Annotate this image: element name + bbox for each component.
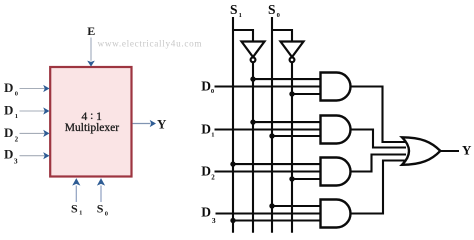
- junction dots: [230, 76, 294, 223]
- wire S1' vertical: [252, 62, 254, 233]
- svg-text:D: D: [201, 205, 211, 220]
- junction S1'/AND1: [250, 76, 255, 81]
- wire AND1 output to OR: [351, 87, 407, 143]
- select S0 (block): [97, 178, 108, 217]
- select S1 (block): [71, 178, 82, 217]
- junction S0'/AND3: [289, 176, 294, 181]
- wire AND2 input S0: [272, 135, 321, 137]
- wire D3: [216, 212, 322, 214]
- enable input E: [87, 24, 95, 67]
- inverter U3 (S0): [281, 42, 304, 63]
- junction S0/AND2: [269, 133, 274, 138]
- svg-text:3: 3: [14, 157, 18, 166]
- svg-text:1: 1: [239, 12, 242, 19]
- svg-text:D: D: [201, 78, 211, 93]
- wire S0 branch to inverter: [272, 30, 292, 42]
- input D2 (block): [4, 125, 50, 144]
- svg-text:E: E: [87, 24, 95, 38]
- wire AND3 output to OR: [351, 155, 407, 172]
- wire AND1 input S0': [292, 93, 321, 95]
- svg-text:D: D: [4, 80, 13, 95]
- wire AND3 input S0': [292, 178, 321, 180]
- wire AND2 output to OR: [351, 130, 407, 148]
- wire D0: [215, 85, 322, 87]
- svg-text:2: 2: [211, 174, 215, 182]
- output Y (block): [133, 117, 168, 132]
- inverter U2 (S1): [242, 42, 265, 63]
- junction S0/AND4: [269, 203, 274, 208]
- svg-text:0: 0: [277, 12, 280, 19]
- junction S0'/AND1: [289, 91, 294, 96]
- svg-text:0: 0: [211, 88, 214, 95]
- svg-text:Y: Y: [462, 143, 472, 158]
- input D3 (block): [4, 147, 50, 166]
- svg-text:D: D: [4, 102, 13, 117]
- svg-text:1: 1: [15, 113, 18, 120]
- wire AND4 input S0: [272, 205, 321, 207]
- svg-text:Y: Y: [157, 117, 167, 132]
- wire S0 vertical: [271, 17, 273, 233]
- svg-text:D: D: [4, 147, 13, 162]
- junction S1/AND3: [230, 161, 235, 166]
- wire AND4 input S1: [233, 219, 321, 221]
- wire D1: [215, 128, 322, 130]
- wire OR output: [441, 150, 460, 152]
- and-gate U4: [321, 73, 351, 101]
- svg-text:2: 2: [15, 135, 19, 143]
- wire D2: [215, 170, 322, 172]
- junction S1/AND4: [230, 218, 235, 223]
- and-gate U7: [321, 200, 351, 228]
- junction S1'/AND2: [250, 119, 255, 124]
- input D0 (block): [4, 80, 50, 98]
- svg-text:0: 0: [15, 91, 18, 98]
- svg-text:S: S: [71, 201, 78, 215]
- wire AND3 input S1: [233, 163, 321, 165]
- and-gate U5: [321, 116, 351, 144]
- wire AND4 output to OR: [351, 161, 407, 214]
- svg-text:S: S: [268, 2, 276, 17]
- svg-text:D: D: [201, 121, 211, 136]
- wire S1 vertical: [232, 17, 234, 233]
- svg-text:4 : 1: 4 : 1: [81, 110, 102, 123]
- svg-text:D: D: [4, 125, 13, 140]
- svg-text:0: 0: [105, 210, 108, 217]
- svg-text:S: S: [97, 201, 104, 215]
- wire AND2 input S1': [253, 121, 321, 123]
- input D1 (block): [4, 102, 50, 120]
- svg-text:www.electrically4u.com: www.electrically4u.com: [98, 39, 203, 49]
- svg-text:1: 1: [211, 131, 214, 138]
- wire S0' vertical: [291, 62, 293, 233]
- wire S1 branch to inverter: [233, 30, 253, 42]
- wire AND1 input S1': [253, 78, 321, 80]
- svg-text:Multiplexer: Multiplexer: [65, 122, 119, 134]
- multiplexer block U1: [50, 67, 131, 177]
- or-gate U8: [402, 137, 440, 165]
- and-gate U6: [321, 158, 351, 186]
- svg-text:D: D: [201, 163, 211, 178]
- svg-text:S: S: [230, 2, 238, 17]
- svg-text:1: 1: [79, 210, 82, 217]
- svg-text:3: 3: [212, 216, 216, 225]
